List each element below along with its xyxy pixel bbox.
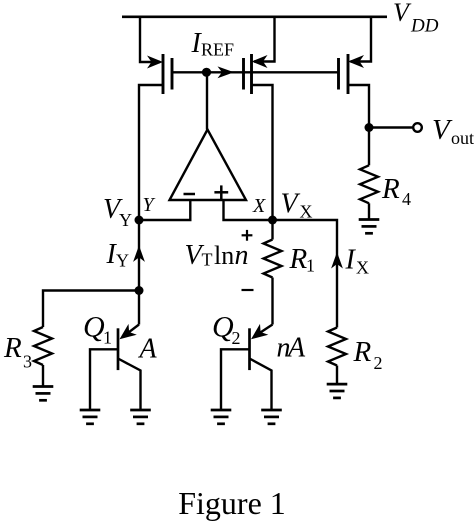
label VT ln n <box>185 240 249 271</box>
ground below Q1 base <box>80 410 101 424</box>
label R1 <box>289 243 316 276</box>
resistor R1 <box>264 240 282 325</box>
label R3 <box>3 332 32 372</box>
ground below Q2 base <box>211 410 232 424</box>
ground below R4 <box>359 220 380 234</box>
ground below R2 <box>327 384 348 398</box>
ground below Q1 collector <box>130 410 151 424</box>
wire VDD rail <box>122 15 387 18</box>
label Q2 <box>212 311 241 349</box>
wire M3 source drop from rail <box>351 17 372 62</box>
resistor R4 <box>360 128 378 220</box>
wire op-amp output to gate bus <box>206 72 208 129</box>
svg-text:Y: Y <box>143 194 156 216</box>
wire gate bus M1-M2-M3 <box>172 71 339 73</box>
svg-text:V: V <box>393 0 412 27</box>
wire junction to R3 <box>43 291 139 328</box>
label Vout <box>432 114 474 148</box>
svg-text:DD: DD <box>410 16 439 37</box>
svg-text:2: 2 <box>374 353 383 373</box>
op-amp U1 <box>170 130 247 201</box>
svg-text:V: V <box>432 114 453 146</box>
label minus below R1 <box>242 289 254 291</box>
label R4 <box>381 173 411 209</box>
node Vout junction <box>365 123 374 132</box>
wire node X to R1 <box>271 220 273 240</box>
svg-text:V: V <box>281 189 301 220</box>
resistor R2 <box>328 328 346 385</box>
svg-text:X: X <box>356 258 369 278</box>
label nA area of Q2 <box>277 333 307 364</box>
transistor Q1 <box>90 324 141 410</box>
arrow IX current <box>331 252 343 269</box>
wire M2 source drop from rail <box>254 17 275 62</box>
node Y <box>135 216 144 225</box>
svg-text:I: I <box>345 245 357 276</box>
svg-text:out: out <box>451 128 474 148</box>
svg-text:Y: Y <box>119 210 132 230</box>
ground below R3 <box>33 387 54 401</box>
wire node X to R2 branch <box>273 220 338 328</box>
transistor M1 <box>139 54 172 220</box>
terminal Vout open circle <box>413 123 422 132</box>
resistor R3 <box>34 327 52 387</box>
svg-text:ln: ln <box>214 241 234 270</box>
arrow IY current <box>133 245 145 262</box>
ground below Q2 collector <box>261 410 282 424</box>
svg-text:X: X <box>300 202 313 222</box>
svg-text:1: 1 <box>103 328 112 348</box>
node X <box>268 216 277 225</box>
arrow IREF current <box>218 66 235 78</box>
svg-text:R: R <box>353 336 372 368</box>
svg-text:A: A <box>286 333 306 364</box>
label IREF <box>191 28 235 60</box>
transistor Q2 <box>221 324 273 410</box>
wire to Vout terminal <box>369 126 412 128</box>
transistor M2 <box>244 54 273 220</box>
svg-text:A: A <box>138 334 158 365</box>
svg-text:Y: Y <box>116 251 129 271</box>
transistor M3 <box>339 54 370 128</box>
svg-text:1: 1 <box>306 256 315 276</box>
wire op-amp non-inverting input to node X <box>224 200 273 220</box>
node IREF junction <box>202 68 211 77</box>
wire node Y down to junction <box>138 220 140 291</box>
svg-text:REF: REF <box>201 40 234 60</box>
svg-text:R: R <box>289 243 308 275</box>
label Q1 <box>83 311 112 348</box>
label plus above R1 <box>242 230 253 241</box>
svg-text:n: n <box>235 240 249 271</box>
wire op-amp inverting input to node Y <box>139 200 190 220</box>
svg-text:2: 2 <box>232 328 241 348</box>
label R2 <box>353 336 383 373</box>
svg-text:Figure 1: Figure 1 <box>178 485 286 521</box>
label VDD <box>393 0 439 37</box>
svg-text:Q: Q <box>83 311 105 344</box>
wire M1 source drop from rail <box>140 17 160 62</box>
label VX <box>281 189 313 222</box>
label IX <box>345 245 370 278</box>
label VY <box>103 194 132 230</box>
wire junction to Q1 emitter <box>138 291 140 325</box>
svg-text:3: 3 <box>23 352 32 372</box>
label IY <box>106 239 130 271</box>
svg-text:4: 4 <box>402 189 411 209</box>
svg-text:X: X <box>252 195 266 217</box>
svg-text:R: R <box>381 173 400 205</box>
node junction above Q1 <box>135 286 144 295</box>
svg-text:R: R <box>3 332 22 364</box>
svg-text:T: T <box>202 250 213 270</box>
